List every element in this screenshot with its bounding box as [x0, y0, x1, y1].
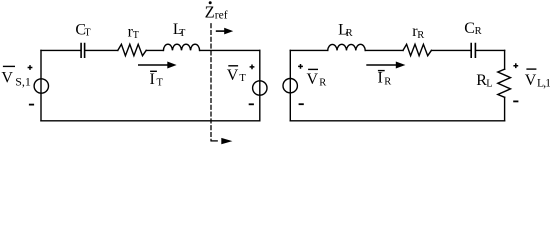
wire right-circuit right vertical top [504, 50, 506, 69]
inductor LT [163, 44, 199, 50]
resistor rR [403, 44, 431, 55]
wire left-circuit top segment LT-to-VT [200, 49, 260, 51]
plus sign source VS1 [28, 65, 33, 70]
wire right-circuit top segment CR-to-corner [476, 49, 504, 51]
svg-text:VR: VR [307, 71, 327, 88]
label VS1 overbar [3, 65, 15, 67]
inductor LR [328, 44, 366, 50]
label VR overbar [308, 68, 318, 70]
label VL1 overbar [526, 68, 536, 70]
plus sign VR [298, 64, 303, 69]
dashed reference line Zref [210, 24, 212, 141]
svg-text:VL,1: VL,1 [525, 72, 550, 89]
minus sign VT [249, 103, 254, 105]
minus sign VR [299, 103, 304, 105]
label Zref dot [209, 1, 212, 4]
wire right-circuit right vertical bottom [504, 97, 506, 121]
svg-text:CT: CT [75, 21, 90, 38]
source VR circle [283, 79, 297, 93]
minus sign VL1 [513, 100, 518, 102]
wire left-circuit right vertical [259, 50, 261, 120]
minus sign source VS1 [29, 104, 34, 106]
svg-text:CR: CR [464, 20, 481, 37]
svg-text:rT: rT [128, 24, 139, 42]
resistor RL [498, 69, 511, 97]
svg-text:IR: IR [378, 70, 392, 88]
svg-text:LR: LR [338, 21, 353, 39]
capacitor CT plates [81, 44, 85, 58]
capacitor CR plates [471, 44, 475, 58]
plus sign VT [250, 65, 255, 70]
wire right-circuit top segment LR-to-rR [365, 49, 403, 51]
wire right-circuit bottom [290, 120, 504, 122]
resistor rT [118, 44, 146, 55]
svg-text:VT: VT [227, 67, 247, 84]
wire right-circuit top segment VR-to-LR [290, 49, 327, 51]
wire left-circuit bottom [41, 120, 260, 122]
svg-text:IT: IT [150, 71, 164, 89]
svg-text:VS,1: VS,1 [1, 70, 30, 89]
plus sign VL1 [513, 63, 518, 68]
wire left-circuit left vertical [40, 50, 42, 120]
wire left-circuit top segment CT-to-rT [85, 49, 118, 51]
current arrow IT [138, 62, 177, 69]
wire right-circuit top segment rR-to-CR [431, 49, 470, 51]
wire left-circuit top segment rT-to-LT [146, 49, 163, 51]
Zref bottom arrow [221, 138, 232, 144]
label VT overbar [228, 65, 238, 67]
svg-text:LT: LT [173, 21, 185, 39]
label IT overbar [150, 70, 157, 72]
svg-text:Zref: Zref [205, 3, 228, 22]
dashed corner segment at bottom of Zref line [212, 140, 218, 142]
wire right-circuit left vertical [289, 50, 291, 120]
source VS1 circle [34, 79, 48, 93]
Zref top arrow [216, 28, 233, 35]
svg-text:rR: rR [412, 23, 424, 41]
wire left-circuit top segment source-to-CT [41, 49, 80, 51]
current arrow IR [366, 62, 405, 69]
svg-text:RL: RL [476, 72, 492, 90]
source VT circle [253, 81, 267, 95]
label IR overbar [378, 70, 385, 72]
